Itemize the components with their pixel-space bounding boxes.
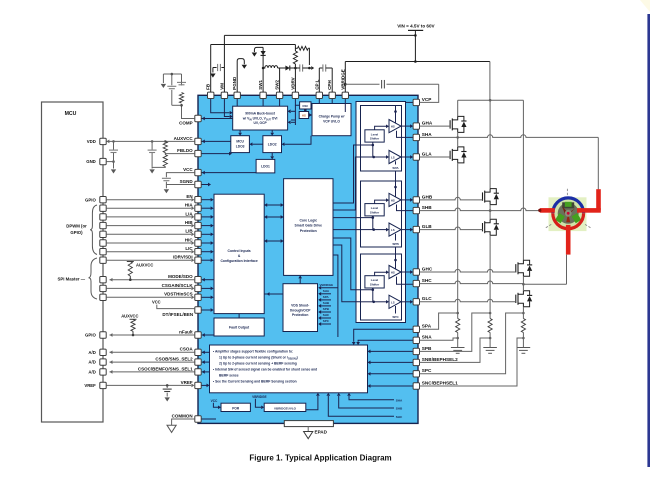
svg-text:Protection: Protection (292, 313, 308, 317)
wire HIB row (106, 225, 191, 227)
pin PGND (234, 92, 240, 98)
wire SGND internal (201, 184, 208, 186)
svg-text:GLB: GLB (422, 224, 433, 229)
ground sense A (451, 347, 465, 349)
ground C_vm (210, 74, 215, 78)
wire COMMON internal (201, 418, 216, 420)
pin HIA (195, 205, 201, 211)
resistor R_fb1 (163, 141, 167, 152)
pin IDRV/SDI (195, 257, 201, 263)
wire GHC (420, 269, 516, 272)
ground sense B (483, 347, 497, 349)
ground sense C (517, 347, 531, 349)
capacitor C_comp2 (171, 90, 173, 105)
svg-text:SPA: SPA (422, 324, 432, 329)
pin VBRIDGE (342, 92, 348, 98)
pin MCU A/D 371.9 (100, 369, 106, 375)
svg-text:SPA: SPA (392, 166, 399, 170)
svg-text:VCP UVLO: VCP UVLO (323, 120, 340, 124)
wire VBRIDGE to UVLO (255, 399, 261, 408)
wire CSOC row (110, 371, 195, 373)
motor background (549, 197, 587, 231)
svg-text:VCC: VCC (211, 399, 218, 403)
wire CPH up (331, 68, 333, 92)
wire VREF row (106, 384, 191, 386)
pin SPB (413, 348, 419, 354)
control inputs block (214, 194, 264, 313)
svg-text:VCC: VCC (152, 299, 161, 304)
wire bridge rail (345, 61, 490, 63)
svg-text:AUXVCC: AUXVCC (121, 314, 138, 319)
pin CP L (316, 92, 322, 98)
svg-text:SHB: SHB (396, 407, 403, 411)
pin SNA (413, 337, 419, 343)
wire LIA internal (201, 216, 210, 218)
pin LIC (195, 249, 201, 255)
pin MCU io 234.3 (100, 231, 106, 237)
pin MCU A/D 362.1 (100, 359, 106, 365)
wire SHC amp (328, 396, 394, 416)
wire LS input C (361, 301, 374, 303)
wire VCP internal (406, 101, 414, 103)
wire SHA amp (349, 396, 394, 400)
wire LS output A (401, 156, 411, 158)
pin SW1 (260, 92, 266, 98)
wire LS source ref A (395, 161, 397, 164)
wire HS output B (401, 199, 411, 201)
wire VCP feed A (395, 106, 397, 123)
wire VDSTH internal (201, 296, 210, 298)
wire LIA row (106, 216, 191, 218)
pin MODE/SDO (195, 277, 201, 283)
SPI group bracket (89, 258, 98, 299)
svg-text:SPC: SPC (392, 315, 399, 319)
wire CSOA internal (202, 351, 210, 353)
svg-text:SHA: SHA (422, 132, 433, 137)
charge pump block (312, 104, 351, 136)
wire nFault row (110, 334, 195, 336)
motor tick marks (566, 189, 568, 196)
wire COMMON ext (172, 419, 195, 425)
svg-text:GHA: GHA (422, 121, 433, 126)
ground C_vref (165, 397, 170, 401)
pin LIA (195, 214, 201, 220)
svg-text:SPC: SPC (323, 319, 330, 323)
wire CSOB row (110, 361, 195, 363)
wire VBRIDGE up (344, 62, 346, 93)
svg-text:nFault: nFault (179, 329, 193, 334)
wire group A to B VCP link (395, 171, 397, 181)
svg-text:LS: LS (391, 156, 395, 160)
pin GHB (413, 197, 419, 203)
pin CSGAIN/SCLK (195, 285, 201, 291)
svg-text:A/D: A/D (88, 350, 95, 355)
pin HIB (195, 222, 201, 228)
pin AUXVCC (195, 138, 201, 144)
pin nFault (195, 332, 201, 338)
svg-text:VBRIDGEUVLO: VBRIDGEUVLO (274, 406, 297, 410)
svg-text:BEMF sense: BEMF sense (219, 374, 239, 378)
wire level shifter input B (361, 216, 373, 218)
wire UVLO to amp block (306, 396, 318, 410)
svg-text:POR: POR (232, 406, 240, 410)
svg-text:LDO3: LDO3 (236, 144, 245, 148)
wire GLA (420, 156, 451, 158)
wire group B to C VCP link (395, 247, 397, 254)
svg-text:CPH: CPH (327, 80, 332, 90)
svg-text:SPA: SPA (323, 295, 330, 299)
diode D_buck (285, 66, 289, 71)
svg-text:VBRIDGE: VBRIDGE (340, 69, 345, 90)
svg-text:Core Logic: Core Logic (299, 219, 317, 223)
ground SGND (164, 189, 169, 193)
wire control to VDS (264, 293, 283, 295)
gate drive group A box (361, 106, 402, 172)
inductor L1 (263, 66, 278, 68)
HS driver B (389, 193, 401, 206)
wire PGND internal (236, 99, 238, 107)
svg-text:LDO2: LDO2 (268, 143, 277, 147)
wire SNA (420, 338, 458, 340)
pin MCU io 216.9 (100, 214, 106, 220)
gate drive group C box (361, 254, 402, 320)
wire SHA to motor (597, 137, 599, 189)
wire control-core a (264, 204, 283, 206)
wire FBLDO internal (201, 153, 229, 155)
pin SGND (195, 181, 201, 187)
amplifier info block (210, 345, 368, 393)
svg-text:DT/IFSEL/BEN: DT/IFSEL/BEN (162, 312, 193, 317)
transistor Q4 low B (482, 223, 484, 231)
wire SPA internal (354, 329, 413, 342)
wire control-core b (264, 216, 283, 218)
pin GLC (413, 299, 419, 305)
svg-text:AUXVCC: AUXVCC (174, 136, 194, 141)
svg-text:Fault Output: Fault Output (229, 326, 250, 330)
svg-text:2) Up to 2-phase current sensi: 2) Up to 2-phase current sensing + BEMF … (219, 362, 297, 366)
wire HIC internal (201, 242, 210, 244)
pin MCU io 251.7 (100, 249, 106, 255)
svg-text:VDS Shoot-: VDS Shoot- (291, 304, 309, 308)
wire SW1 (262, 47, 264, 92)
wire SGND ext (166, 182, 194, 185)
wire CPL up (318, 68, 320, 92)
transistor Q3 high B (482, 192, 484, 200)
svg-text:GLC: GLC (422, 296, 433, 301)
wire level shifter input C (361, 288, 373, 290)
svg-text:SGND: SGND (180, 179, 194, 184)
pin COMP (195, 115, 201, 121)
svg-text:SNA: SNA (422, 335, 433, 340)
transistor Q1 high A (449, 120, 451, 128)
wire LS output C (401, 301, 411, 303)
pin SW2 (276, 92, 282, 98)
resistor R_senseB (489, 313, 491, 319)
svg-text:Shifter: Shifter (370, 211, 380, 215)
pin GHC (413, 269, 419, 275)
LDO2 block (263, 136, 282, 153)
svg-text:HS: HS (391, 198, 395, 202)
ground C_aux (149, 169, 154, 173)
svg-text:IDRV/SDI: IDRV/SDI (173, 255, 192, 260)
pin DT/IFSEL/BEN (195, 307, 201, 313)
pin MCU VDD 141.4 (100, 138, 106, 144)
wire R_fb2 to gnd (152, 166, 165, 169)
pin SHA (413, 134, 419, 140)
wire SNB internal (371, 361, 414, 363)
wire VCC to POR (213, 403, 218, 408)
wire HS input C (375, 272, 387, 276)
pin CSOC/BEMFO/SNS_SEL1 (195, 369, 201, 375)
svg-text:Figure 1. Typical Application: Figure 1. Typical Application Diagram (249, 454, 391, 463)
pin MCU io 279.7 (100, 277, 106, 283)
resistor R_fb2 (163, 155, 167, 167)
wire core to HS-A (333, 145, 361, 203)
svg-text:VDRV: VDRV (290, 77, 295, 89)
svg-text:GHB: GHB (422, 194, 433, 199)
resistor R_fbk vertical (293, 51, 297, 64)
svg-text:LS: LS (391, 300, 395, 304)
LDO1 block (256, 159, 275, 173)
resistor R_comp (179, 93, 183, 104)
wire FBLDO node (164, 153, 166, 155)
DPWM group bracket (90, 205, 97, 255)
svg-text:Control Inputs: Control Inputs (228, 249, 251, 253)
wire LDO2 to LDO3 (253, 143, 263, 145)
svg-text:AUXVCC: AUXVCC (136, 263, 153, 268)
wire phase C source (522, 307, 524, 313)
svg-text:SW1: SW1 (258, 80, 263, 90)
wire GHA (420, 125, 451, 127)
ground EPAD (307, 427, 309, 432)
wire COMP internal (201, 118, 232, 120)
wire VDS to core (299, 279, 301, 284)
pin MCU GND 161.6 (100, 158, 106, 164)
svg-text:GPIO: GPIO (85, 197, 96, 202)
wire HS output C (401, 271, 411, 273)
wire SH sense B (397, 205, 414, 211)
svg-text:SHB: SHB (323, 301, 330, 305)
svg-text:Level: Level (371, 278, 379, 282)
wire HS output A (401, 125, 411, 127)
svg-text:CSOA: CSOA (180, 347, 194, 352)
wire VIN drop (414, 35, 416, 61)
svg-text:VDD: VDD (87, 139, 96, 144)
pin MCU io 260.2 (100, 257, 106, 263)
svg-text:MCU: MCU (236, 140, 244, 144)
svg-text:SPB: SPB (392, 242, 399, 246)
wire SHA (420, 136, 458, 138)
svg-text:Configuration Interface: Configuration Interface (220, 259, 257, 263)
wire CPL internal (318, 99, 320, 104)
wire MODE internal (202, 279, 214, 281)
wire SPB (420, 313, 491, 351)
svg-text:CSGAIN/SCLK: CSGAIN/SCLK (162, 283, 194, 288)
capacitor C_vcc (162, 177, 171, 179)
svg-text:SNB/BEPHSEL2: SNB/BEPHSEL2 (422, 357, 458, 362)
VBRIDGEUVLO block (264, 403, 306, 411)
core logic block (284, 179, 333, 276)
svg-text:VDSTHinSCS: VDSTHinSCS (164, 292, 193, 297)
wire HIC row (106, 242, 191, 244)
pin VCP (413, 99, 419, 105)
svg-text:A/D: A/D (88, 360, 95, 365)
pin CPH (329, 92, 335, 98)
wire EN internal (201, 199, 210, 201)
wire core to HS-B (333, 217, 361, 219)
svg-text:SHA: SHA (323, 289, 330, 293)
svg-text:OSC: OSC (302, 104, 308, 108)
svg-text:CSOC/BEMFO/SNS_SEL1: CSOC/BEMFO/SNS_SEL1 (138, 366, 193, 371)
svg-text:VBRIDGE: VBRIDGE (252, 395, 267, 399)
svg-text:MODE/SDO: MODE/SDO (168, 274, 193, 279)
svg-text:Smart Gate Drive: Smart Gate Drive (295, 224, 323, 228)
svg-text:GND: GND (86, 159, 96, 164)
svg-text:VCP: VCP (422, 97, 432, 102)
svg-text:• Amplifier stages support f: • Amplifier stages support flexible conf… (213, 350, 293, 354)
wire phase B source (489, 235, 491, 313)
wire buck feedback a (291, 119, 295, 121)
svg-text:• Internal S/H of sensed sig: • Internal S/H of sensed signal can be e… (213, 368, 317, 372)
wire bus spare (333, 255, 338, 337)
wire CSGAIN row (106, 287, 191, 289)
capacitor C_vdrv (299, 64, 301, 71)
wire SH sense C (397, 277, 414, 285)
wire SNB (420, 338, 491, 362)
wire SW2 (278, 67, 286, 69)
wire GHB (420, 197, 483, 200)
wire VCP feed B (395, 181, 397, 197)
svg-text:PGND: PGND (232, 76, 237, 90)
wire motor phase A red (596, 189, 601, 210)
wire HIB internal (201, 225, 210, 227)
wire VREF internal (201, 384, 206, 386)
pin SPA (413, 326, 419, 332)
svg-text:SHC: SHC (422, 278, 433, 283)
wire SW1 hook arrow (254, 47, 263, 52)
wire AUXVCC internal (201, 140, 230, 142)
svg-text:COMMON: COMMON (172, 413, 193, 418)
wire core to LS-B (333, 229, 361, 231)
wire LS source ref C (395, 306, 397, 314)
node sense B (489, 312, 492, 315)
wire FB line (210, 45, 212, 93)
svg-text:COMP: COMP (179, 120, 193, 125)
wire control-core c (264, 240, 283, 242)
svg-text:VREF: VREF (84, 383, 96, 388)
wire LDO2 to LDO1 (271, 153, 273, 157)
wire CSGAIN internal (201, 287, 210, 289)
wire VCC ext (166, 173, 194, 178)
pin COMMON (195, 416, 201, 422)
wire GND mcu (106, 161, 113, 163)
svg-text:VREF: VREF (181, 380, 193, 385)
svg-text:VBRIDGE: VBRIDGE (320, 283, 334, 287)
HS driver A (389, 120, 401, 133)
wire level shifter input A (361, 142, 373, 145)
wire SHB (420, 208, 491, 211)
wire HS input A (375, 126, 387, 130)
wire comp top (163, 73, 181, 75)
wire SW1 internal (262, 99, 264, 107)
wire VCP feed C (395, 254, 397, 269)
svg-text:GHC: GHC (422, 266, 433, 271)
fault output block (214, 318, 264, 336)
pin MCU A/D 352.3 (100, 349, 106, 355)
gate driver container box (356, 102, 406, 323)
svg-text:SPI Master —: SPI Master — (58, 276, 86, 281)
wire LIC row (106, 251, 191, 253)
svg-text:CSOB/SNS_SEL2: CSOB/SNS_SEL2 (155, 357, 193, 362)
capacitor C_aux (151, 141, 153, 149)
transistor Q5 high C (515, 264, 517, 272)
svg-text:SNC/BEPHSEL1: SNC/BEPHSEL1 (422, 380, 458, 385)
wire VBRIDGE internal (344, 99, 346, 113)
wire SPC (420, 313, 524, 374)
capacitor C_fly (322, 64, 324, 71)
wire PGND hook (237, 59, 244, 93)
svg-text:Charge Pump w/: Charge Pump w/ (319, 115, 345, 119)
wire drain rail (458, 99, 524, 101)
wire SNA internal (358, 340, 413, 342)
wire core to HS-C (333, 238, 361, 290)
wire HS input B (375, 200, 387, 204)
capacitor C_vdd1 (113, 141, 115, 149)
pin MCU GPIO 335.0 (100, 332, 106, 338)
wire VM internal (224, 99, 229, 117)
svg-text:Level: Level (371, 206, 379, 210)
gate drive group B box (361, 181, 402, 247)
svg-text:SPB: SPB (422, 346, 432, 351)
wire buck to LDO3 (239, 130, 241, 133)
svg-text:SPB: SPB (323, 307, 330, 311)
pin VDSTHinSCS (195, 294, 201, 300)
svg-text:900mA Buck-boost: 900mA Buck-boost (245, 112, 276, 116)
pin GLA (413, 154, 419, 160)
svg-text:LS: LS (391, 228, 395, 232)
buck-boost regulator block (233, 106, 288, 130)
wire motor phase C red (566, 225, 571, 255)
wire IDRV row (106, 259, 191, 261)
svg-text:VIN = 4.5V to 60V: VIN = 4.5V to 60V (397, 23, 435, 28)
svg-text:UV, OCP: UV, OCP (253, 121, 267, 125)
svg-text:MCU: MCU (65, 111, 77, 117)
EPAD pad (284, 421, 333, 427)
level shifter C (365, 276, 384, 288)
wire GLB (420, 227, 483, 230)
wire core to LS-A (333, 157, 361, 210)
wire SNC internal (371, 385, 414, 387)
pin SHC (413, 280, 419, 286)
pin SPC (413, 371, 419, 377)
ground C_vdd1 (111, 169, 116, 173)
capacitor C_vcp (381, 80, 383, 89)
svg-text:1) Up to 3-phase current sensi: 1) Up to 3-phase current sensing (Shunt … (219, 356, 298, 361)
svg-text:SHC: SHC (323, 313, 330, 317)
pin FBLDO (195, 150, 201, 156)
pin MCU VREF 385.4 (100, 382, 106, 388)
wire CP to LDO2 (285, 136, 311, 145)
svg-text:DPWM (or: DPWM (or (66, 223, 87, 228)
wire SPA (420, 313, 458, 329)
resistor R_fbk horizontal (295, 47, 297, 49)
wire flying cap arrow (309, 67, 311, 69)
wire SPC internal (371, 373, 414, 375)
wire LIB row (106, 233, 191, 235)
LS driver C (389, 295, 401, 308)
resistor R_senseA (457, 313, 459, 319)
wire SPB internal (371, 350, 414, 352)
